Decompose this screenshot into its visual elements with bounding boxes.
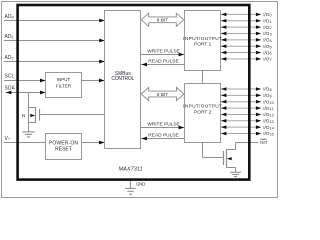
wire port2 to Q2 gate — [203, 143, 223, 158]
wire I/O9 (bidirectional) — [221, 94, 262, 98]
block input filter — [46, 73, 82, 98]
svg-text:I/O9: I/O9 — [263, 93, 271, 98]
pin label INT (active low) — [260, 139, 267, 145]
wire I/O3 (bidirectional) — [221, 32, 262, 36]
transistor Q1 (N-channel SDA driver) — [29, 107, 40, 123]
svg-text:I/O2: I/O2 — [263, 25, 271, 30]
svg-text:I/O8: I/O8 — [263, 87, 271, 92]
svg-text:PORT 2: PORT 2 — [194, 110, 211, 116]
svg-text:8 BIT: 8 BIT — [157, 92, 169, 98]
chip outline box — [18, 5, 250, 180]
svg-text:READ PULSE: READ PULSE — [148, 58, 178, 64]
block power-on reset — [46, 134, 82, 160]
block input/output port 1 — [183, 11, 222, 71]
wire V+ — [4, 142, 46, 144]
wire WRITE PULSE to port 1 — [141, 49, 185, 57]
wire SDA branch down to Q1 — [28, 93, 30, 108]
svg-text:WRITE PULSE: WRITE PULSE — [147, 49, 180, 55]
wire port1 to port2 — [202, 71, 204, 84]
svg-text:I/O5: I/O5 — [263, 44, 271, 49]
svg-text:N: N — [22, 113, 26, 119]
svg-text:I/O7: I/O7 — [263, 57, 271, 62]
block input/output port 2 — [183, 84, 222, 143]
wire AD1 — [4, 39, 105, 43]
wire INT output — [236, 142, 259, 144]
svg-text:AD0: AD0 — [5, 14, 15, 20]
wire I/O11 (bidirectional) — [221, 106, 262, 110]
svg-text:I/O12: I/O12 — [263, 112, 274, 117]
svg-text:I/O11: I/O11 — [263, 106, 273, 111]
svg-text:I/O3: I/O3 — [263, 31, 271, 36]
bus arrow 8 BIT (port 2) — [141, 87, 184, 100]
wire READ PULSE from port 2 — [141, 132, 184, 140]
svg-text:RESET: RESET — [55, 147, 72, 153]
svg-text:FILTER: FILTER — [56, 83, 72, 88]
ground for Q2 — [230, 172, 241, 176]
svg-text:I/O0: I/O0 — [263, 12, 272, 17]
svg-text:INPUT/OUTPUT: INPUT/OUTPUT — [183, 36, 222, 42]
wire I/O2 (bidirectional) — [221, 25, 262, 29]
wire AD2 — [4, 60, 105, 64]
svg-text:I/O14: I/O14 — [263, 125, 274, 130]
svg-text:AD1: AD1 — [5, 34, 14, 40]
wire SDA (bidirectional) — [6, 91, 46, 95]
svg-text:V+: V+ — [5, 136, 11, 142]
svg-text:INPUT: INPUT — [57, 77, 71, 82]
transistor Q2 (N-channel INT driver) — [224, 143, 236, 173]
svg-text:WRITE PULSE: WRITE PULSE — [147, 122, 180, 128]
border frame — [2, 2, 278, 198]
wire power-on reset to SMBus control — [82, 141, 105, 145]
svg-text:I/O10: I/O10 — [263, 99, 274, 104]
wire SCL — [4, 79, 46, 83]
block SMBus control U1 — [105, 11, 141, 149]
ground symbol GND pin — [125, 188, 135, 194]
svg-text:8 BIT: 8 BIT — [157, 18, 169, 24]
wire AD0 — [4, 19, 105, 23]
wire Q1 source down — [28, 123, 30, 132]
wire I/O10 (bidirectional) — [221, 100, 262, 104]
svg-text:I/O1: I/O1 — [263, 18, 271, 23]
svg-text:SCL: SCL — [5, 74, 15, 80]
svg-text:I/O13: I/O13 — [263, 119, 274, 124]
svg-text:GND: GND — [136, 181, 145, 186]
wire I/O14 (bidirectional) — [221, 125, 262, 129]
wire I/O1 (bidirectional) — [221, 19, 262, 23]
wire GND stem — [130, 180, 132, 188]
bus arrow 8 BIT (port 1) — [141, 13, 184, 26]
svg-text:PORT 1: PORT 1 — [194, 42, 211, 48]
svg-text:SDA: SDA — [5, 86, 16, 92]
svg-text:I/O4: I/O4 — [263, 38, 272, 43]
svg-text:I/O6: I/O6 — [263, 50, 271, 55]
svg-text:CONTROL: CONTROL — [111, 76, 134, 82]
wire I/O4 (bidirectional) — [221, 38, 262, 42]
wire I/O0 (bidirectional) — [221, 13, 262, 17]
wire Q1 gate to SMBus control — [40, 114, 104, 116]
wire WRITE PULSE to port 2 — [141, 122, 185, 130]
wire I/O6 (bidirectional) — [221, 51, 262, 55]
svg-text:AD2: AD2 — [5, 55, 14, 61]
svg-text:INPUT/OUTPUT: INPUT/OUTPUT — [183, 104, 222, 110]
wire I/O5 (bidirectional) — [221, 44, 262, 48]
wire I/O15 (bidirectional) — [221, 132, 262, 136]
wire I/O12 (bidirectional) — [221, 113, 262, 117]
wire I/O13 (bidirectional) — [221, 119, 262, 123]
wire READ PULSE from port 1 — [141, 58, 184, 66]
wire input filter to SMBus control — [82, 79, 105, 83]
wire I/O8 (bidirectional) — [221, 87, 262, 91]
wire I/O7 (bidirectional) — [221, 57, 262, 61]
svg-text:MAX7311: MAX7311 — [119, 166, 143, 172]
svg-text:I/O15: I/O15 — [263, 131, 274, 136]
ground for Q1 — [22, 132, 35, 137]
svg-text:INT: INT — [260, 140, 267, 145]
svg-text:READ PULSE: READ PULSE — [148, 132, 178, 138]
